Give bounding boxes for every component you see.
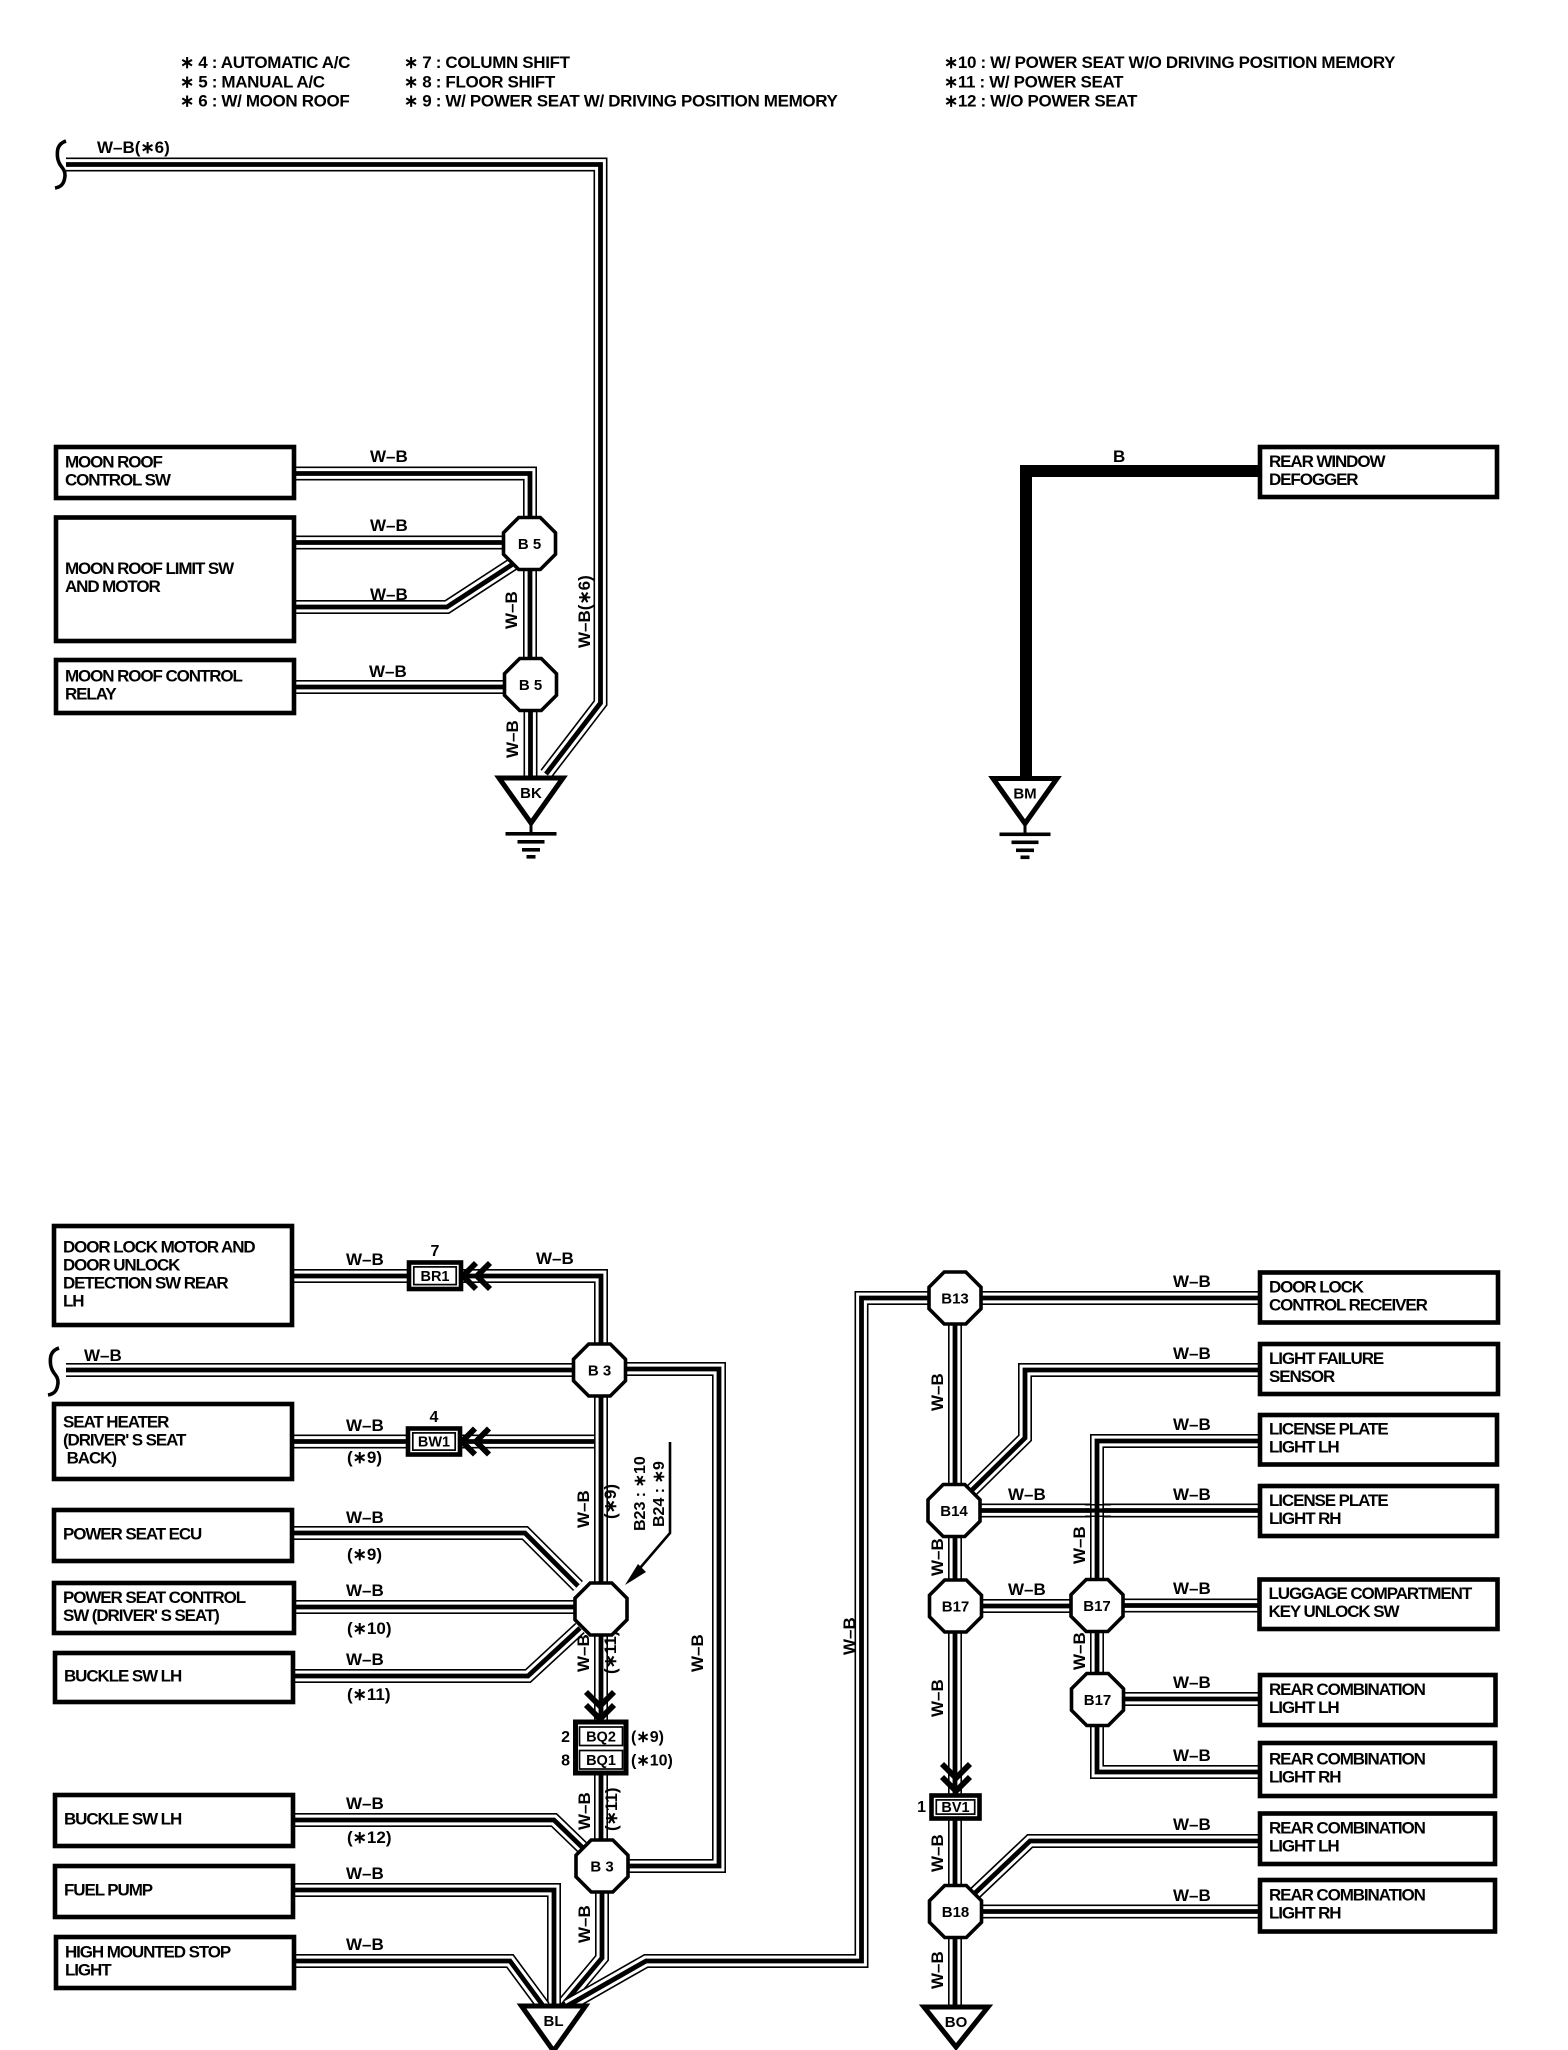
component REAR COMBINATION LIGHT RH upper [1260, 1743, 1495, 1796]
svg-text:(∗12): (∗12) [347, 1828, 391, 1847]
svg-text:SEAT HEATER: SEAT HEATER [63, 1412, 169, 1431]
svg-text:REAR COMBINATION: REAR COMBINATION [1269, 1819, 1426, 1838]
svg-text:MOON ROOF: MOON ROOF [65, 452, 163, 471]
continuation brace top [55, 141, 66, 188]
svg-text:W–B: W–B [346, 1508, 384, 1527]
svg-text:W–B: W–B [1173, 1485, 1211, 1504]
svg-text:DOOR LOCK MOTOR AND: DOOR LOCK MOTOR AND [63, 1237, 255, 1256]
svg-text:W–B: W–B [1173, 1673, 1211, 1692]
svg-text:W–B: W–B [536, 1249, 574, 1268]
svg-text:(∗9): (∗9) [631, 1729, 664, 1746]
component DOOR LOCK MOTOR AND DOOR UNLOCK DETECTION SW REAR LH [54, 1226, 292, 1325]
svg-text:LIGHT LH: LIGHT LH [1269, 1698, 1339, 1717]
wire B5 to B5 vertical [523, 560, 537, 665]
component LIGHT FAILURE SENSOR [1260, 1344, 1498, 1394]
svg-text:W–B: W–B [574, 1634, 593, 1672]
wire B defogger ground wire [1026, 471, 1262, 776]
svg-text:BQ2: BQ2 [586, 1730, 616, 1746]
svg-text:BM: BM [1013, 786, 1036, 803]
svg-text:LIGHT RH: LIGHT RH [1269, 1904, 1341, 1923]
connector B17 lower [1072, 1674, 1124, 1726]
wire crossing patch at license LH vertical [1085, 1505, 1111, 1517]
svg-text:BACK): BACK) [63, 1448, 116, 1467]
ground BM [993, 779, 1057, 860]
svg-text:W–B: W–B [575, 1792, 594, 1830]
svg-text:∗ 8 : FLOOR SHIFT: ∗ 8 : FLOOR SHIFT [404, 72, 556, 91]
svg-text:W–B: W–B [1070, 1526, 1089, 1564]
svg-text:W–B: W–B [928, 1951, 947, 1989]
svg-text:W–B: W–B [1070, 1632, 1089, 1670]
component REAR COMBINATION LIGHT LH upper [1260, 1675, 1496, 1725]
connector B17 left [930, 1580, 982, 1632]
wire W-B(*6) from brace to ground BK [66, 165, 601, 775]
svg-text:DOOR UNLOCK: DOOR UNLOCK [63, 1255, 181, 1274]
wire B3 down to junction octagon [594, 1392, 608, 1586]
svg-text:B17: B17 [942, 1599, 970, 1616]
svg-text:(∗9): (∗9) [347, 1545, 382, 1564]
svg-text:(∗11): (∗11) [601, 1630, 620, 1674]
wire moon roof control sw to B5 [290, 474, 530, 521]
wire B17 middle to luggage sw [1121, 1599, 1262, 1613]
svg-text:∗ 4 : AUTOMATIC A/C: ∗ 4 : AUTOMATIC A/C [180, 53, 350, 72]
wire BR1 to B3 corner [462, 1276, 601, 1350]
svg-text:B 5: B 5 [518, 536, 541, 553]
svg-text:LIGHT: LIGHT [65, 1960, 112, 1979]
svg-text:W–B: W–B [1173, 1415, 1211, 1434]
svg-text:RELAY: RELAY [65, 684, 117, 703]
svg-text:AND MOTOR: AND MOTOR [65, 577, 160, 596]
svg-text:B 3: B 3 [588, 1363, 611, 1380]
connector BR1 [409, 1263, 461, 1290]
svg-text:W–B: W–B [928, 1834, 947, 1872]
svg-text:7: 7 [431, 1243, 440, 1260]
svg-text:W–B: W–B [346, 1650, 384, 1669]
chevron arrows into BR1 [463, 1263, 490, 1289]
connector junction B23/B24 [575, 1583, 627, 1635]
svg-text:W–B(∗6): W–B(∗6) [97, 138, 170, 157]
svg-text:LICENSE PLATE: LICENSE PLATE [1269, 1491, 1388, 1510]
svg-text:W–B: W–B [84, 1346, 122, 1365]
connector B18 [930, 1886, 982, 1938]
ground BL [522, 2006, 586, 2050]
svg-text:∗ 7 : COLUMN SHIFT: ∗ 7 : COLUMN SHIFT [404, 53, 571, 72]
svg-text:KEY UNLOCK SW: KEY UNLOCK SW [1269, 1602, 1401, 1621]
svg-text:W–B: W–B [1173, 1746, 1211, 1765]
component REAR WINDOW DEFOGGER [1260, 447, 1497, 497]
connector B3 lower [576, 1840, 628, 1892]
svg-text:LIGHT LH: LIGHT LH [1269, 1438, 1339, 1457]
wire B17 middle up to license plate LH [1097, 1441, 1262, 1583]
svg-text:2: 2 [561, 1729, 570, 1746]
svg-text:BL: BL [544, 2013, 564, 2030]
chevron arrows to BQ2 [586, 1692, 614, 1719]
chevron arrows to BV1 [942, 1764, 970, 1791]
svg-text:1: 1 [917, 1799, 926, 1816]
svg-text:W–B: W–B [1008, 1580, 1046, 1599]
chevron arrows into BW1 [462, 1429, 489, 1455]
connector B14 [928, 1485, 980, 1537]
svg-text:MOON ROOF LIMIT SW: MOON ROOF LIMIT SW [65, 559, 235, 578]
wire junction octagon to chevrons [594, 1632, 608, 1723]
component BUCKLE SW LH upper [55, 1653, 293, 1702]
connector B13 [929, 1272, 981, 1324]
svg-text:W–B: W–B [575, 1905, 594, 1943]
component BUCKLE SW LH lower [55, 1795, 293, 1846]
svg-text:(∗9): (∗9) [601, 1484, 620, 1519]
wire buckle sw 2 wire [290, 1820, 584, 1849]
svg-text:LIGHT RH: LIGHT RH [1269, 1767, 1341, 1786]
component FUEL PUMP [55, 1866, 293, 1917]
svg-text:∗10 : W/ POWER SEAT W/O DRIVIN: ∗10 : W/ POWER SEAT W/O DRIVING POSITION… [944, 53, 1396, 72]
wire door lock motor to BR1 [290, 1269, 412, 1283]
svg-text:W–B: W–B [346, 1935, 384, 1954]
wire B17 middle down to B17 lower [1090, 1629, 1104, 1676]
connector B17 middle [1071, 1580, 1123, 1632]
component POWER SEAT CONTROL SW (DRIVER S SEAT) [54, 1583, 294, 1633]
svg-text:B18: B18 [942, 1904, 970, 1921]
svg-text:∗11 : W/ POWER SEAT: ∗11 : W/ POWER SEAT [944, 72, 1124, 91]
wire moon roof limit sw wire 2 [290, 564, 513, 607]
wire high mounted stop light wire [290, 1961, 544, 2007]
svg-text:POWER SEAT CONTROL: POWER SEAT CONTROL [63, 1588, 246, 1607]
svg-text:W–B: W–B [928, 1538, 947, 1576]
ground BO [924, 2007, 988, 2047]
component REAR COMBINATION LIGHT RH lower [1260, 1880, 1495, 1932]
wire moon roof limit sw wire 1 [290, 536, 506, 550]
svg-text:BQ1: BQ1 [586, 1753, 616, 1769]
wire B17 left to B17 middle [979, 1599, 1074, 1613]
wire B18 to ground BO [948, 1935, 962, 2006]
svg-text:B 3: B 3 [590, 1859, 613, 1876]
svg-text:LUGGAGE COMPARTMENT: LUGGAGE COMPARTMENT [1269, 1584, 1473, 1603]
svg-text:CONTROL RECEIVER: CONTROL RECEIVER [1269, 1295, 1428, 1314]
wire buckle sw 1 wire [290, 1628, 580, 1676]
wire B13 to B14 [948, 1322, 962, 1488]
wire B17 lower down to rear comb RH [1097, 1723, 1262, 1772]
svg-text:DETECTION SW REAR: DETECTION SW REAR [63, 1273, 228, 1292]
svg-text:W–B: W–B [502, 591, 521, 629]
wire lower B3 to ground BL [561, 1890, 602, 2007]
svg-text:FUEL PUMP: FUEL PUMP [64, 1880, 153, 1899]
svg-text:LICENSE PLATE: LICENSE PLATE [1269, 1420, 1388, 1439]
component MOON ROOF CONTROL RELAY [56, 660, 294, 713]
svg-text:HIGH MOUNTED STOP: HIGH MOUNTED STOP [65, 1942, 231, 1961]
svg-text:8: 8 [561, 1753, 570, 1770]
connector B5 upper [504, 518, 556, 570]
svg-text:BK: BK [520, 785, 542, 802]
svg-text:REAR COMBINATION: REAR COMBINATION [1269, 1749, 1426, 1768]
component LICENSE PLATE LIGHT LH [1260, 1415, 1497, 1465]
wire B5 to ground BK [524, 700, 538, 776]
wire B14 to license plate RH [978, 1504, 1262, 1518]
svg-text:B13: B13 [941, 1291, 969, 1308]
svg-text:W–B: W–B [840, 1617, 859, 1655]
svg-text:∗ 6 : W/ MOON ROOF: ∗ 6 : W/ MOON ROOF [180, 92, 349, 111]
svg-text:W–B: W–B [346, 1250, 384, 1269]
svg-text:SW (DRIVER' S SEAT): SW (DRIVER' S SEAT) [63, 1606, 219, 1625]
svg-text:DEFOGGER: DEFOGGER [1269, 470, 1358, 489]
svg-text:(∗9): (∗9) [347, 1448, 382, 1467]
connector B3 upper [574, 1344, 626, 1396]
svg-text:∗ 5 : MANUAL A/C: ∗ 5 : MANUAL A/C [180, 72, 325, 91]
svg-text:BW1: BW1 [418, 1435, 450, 1451]
svg-text:(∗10): (∗10) [347, 1619, 391, 1638]
svg-text:W–B: W–B [688, 1634, 707, 1672]
wire power seat control sw wire [290, 1600, 576, 1614]
svg-text:(∗10): (∗10) [631, 1753, 673, 1770]
svg-text:W–B(∗6): W–B(∗6) [575, 575, 594, 648]
svg-text:MOON ROOF CONTROL: MOON ROOF CONTROL [65, 666, 242, 685]
svg-text:B14: B14 [940, 1503, 968, 1520]
svg-text:B: B [1113, 447, 1125, 466]
svg-text:∗12 : W/O POWER SEAT: ∗12 : W/O POWER SEAT [944, 92, 1138, 111]
svg-text:B 5: B 5 [519, 677, 542, 694]
svg-text:W–B: W–B [1173, 1272, 1211, 1291]
component HIGH MOUNTED STOP LIGHT [56, 1937, 294, 1988]
wire BQ1 to lower B3 [594, 1774, 608, 1845]
wire seat heater to BW1 [290, 1435, 411, 1449]
svg-text:B17: B17 [1084, 1692, 1112, 1709]
component LUGGAGE COMPARTMENT KEY UNLOCK SW [1260, 1580, 1498, 1630]
wire fuel pump wire [290, 1890, 554, 2007]
svg-text:(DRIVER' S SEAT: (DRIVER' S SEAT [63, 1430, 187, 1449]
svg-text:W–B: W–B [928, 1679, 947, 1717]
wire B3 right loop to lower B3 [624, 1369, 719, 1866]
svg-text:W–B: W–B [1173, 1579, 1211, 1598]
wire B17 left down to chevrons BV1 [948, 1630, 962, 1797]
svg-text:SENSOR: SENSOR [1269, 1367, 1335, 1386]
svg-text:B24 : ∗9: B24 : ∗9 [651, 1461, 668, 1527]
svg-text:LIGHT FAILURE: LIGHT FAILURE [1269, 1349, 1384, 1368]
wire power seat ecu wire [290, 1533, 578, 1586]
svg-text:W–B: W–B [346, 1864, 384, 1883]
svg-text:W–B: W–B [928, 1373, 947, 1411]
wire B18 diag to rear comb LH 2 [973, 1841, 1262, 1895]
svg-text:W–B: W–B [574, 1490, 593, 1528]
wire B17 lower to rear comb LH [1121, 1692, 1262, 1706]
svg-text:W–B: W–B [1173, 1886, 1211, 1905]
ground BK [499, 778, 563, 859]
component SEAT HEATER (DRIVER S SEAT BACK) [54, 1404, 292, 1479]
component MOON ROOF LIMIT SW AND MOTOR [56, 518, 294, 642]
svg-text:BR1: BR1 [420, 1269, 449, 1285]
svg-text:BUCKLE SW LH: BUCKLE SW LH [64, 1666, 182, 1685]
svg-text:LIGHT RH: LIGHT RH [1269, 1509, 1341, 1528]
svg-text:LIGHT LH: LIGHT LH [1269, 1837, 1339, 1856]
continuation brace lower [48, 1348, 59, 1395]
svg-text:W–B: W–B [369, 662, 407, 681]
svg-text:BUCKLE SW LH: BUCKLE SW LH [64, 1809, 182, 1828]
svg-text:W–B: W–B [346, 1416, 384, 1435]
wire B13 left long wire to ground BL [567, 1298, 931, 2006]
wire B18 to rear comb RH 2 [978, 1905, 1262, 1919]
wire B14 to B17 left [948, 1534, 962, 1584]
svg-text:W–B: W–B [346, 1794, 384, 1813]
svg-text:4: 4 [430, 1409, 439, 1426]
callout arrow B23/B24 [625, 1442, 670, 1585]
wire BV1 to B18 [948, 1819, 962, 1890]
svg-text:∗ 9 : W/ POWER SEAT W/ DRIVING: ∗ 9 : W/ POWER SEAT W/ DRIVING POSITION … [404, 92, 839, 111]
svg-text:B17: B17 [1083, 1598, 1111, 1615]
svg-text:W–B: W–B [1008, 1485, 1046, 1504]
svg-text:CONTROL SW: CONTROL SW [65, 470, 172, 489]
svg-text:DOOR LOCK: DOOR LOCK [1269, 1277, 1365, 1296]
component REAR COMBINATION LIGHT LH lower [1260, 1814, 1495, 1865]
connector B5 lower [505, 659, 557, 711]
connector BQ2/BQ1 stack [576, 1722, 627, 1773]
connector BV1 [932, 1796, 980, 1819]
svg-text:W–B: W–B [370, 516, 408, 535]
component DOOR LOCK CONTROL RECEIVER [1260, 1273, 1498, 1323]
wire B14 to light failure sensor [969, 1370, 1262, 1493]
svg-text:BV1: BV1 [941, 1800, 969, 1816]
svg-text:BO: BO [945, 2014, 968, 2031]
svg-text:(∗11): (∗11) [602, 1787, 621, 1831]
wire B13 to door lock control receiver [979, 1291, 1262, 1305]
svg-text:W–B: W–B [370, 585, 408, 604]
wire moon roof relay wire [290, 680, 506, 694]
wire brace to B3 [66, 1363, 578, 1377]
svg-text:(∗11): (∗11) [347, 1685, 391, 1704]
svg-text:W–B: W–B [346, 1581, 384, 1600]
svg-text:W–B: W–B [1173, 1344, 1211, 1363]
svg-text:W–B: W–B [1173, 1815, 1211, 1834]
svg-text:W–B: W–B [503, 720, 522, 758]
svg-text:W–B: W–B [370, 447, 408, 466]
component POWER SEAT ECU [54, 1510, 292, 1561]
svg-text:REAR COMBINATION: REAR COMBINATION [1269, 1886, 1426, 1905]
wire BW1 to vertical join [461, 1442, 601, 1461]
svg-text:B23 : ∗10: B23 : ∗10 [632, 1456, 649, 1531]
svg-text:POWER SEAT ECU: POWER SEAT ECU [63, 1524, 202, 1543]
connector BW1 [408, 1429, 460, 1455]
component MOON ROOF CONTROL SW [56, 447, 294, 498]
svg-text:LH: LH [63, 1291, 84, 1310]
component LICENSE PLATE LIGHT RH [1260, 1486, 1497, 1536]
svg-text:REAR COMBINATION: REAR COMBINATION [1269, 1680, 1426, 1699]
svg-text:REAR WINDOW: REAR WINDOW [1269, 452, 1386, 471]
